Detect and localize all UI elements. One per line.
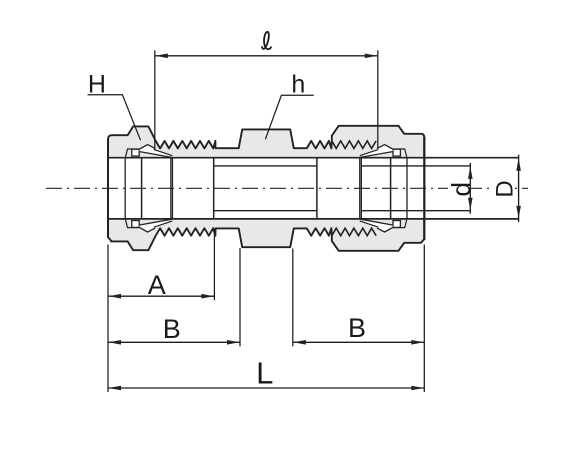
body socket shoulder: [213, 158, 215, 219]
svg-text:A: A: [148, 270, 166, 300]
bore / tube OD line top: [108, 157, 519, 159]
dimension line A: [108, 295, 214, 297]
dimension line B left: [108, 341, 240, 343]
front ferrule nose left: [170, 158, 172, 219]
extension line socket depth (A): [213, 229, 215, 300]
dimension line d (tube bore): [469, 163, 471, 214]
nut inner wall edge left: [124, 158, 126, 219]
ferrules right bottom (back ferrule + front ferrule): [393, 219, 407, 228]
back ferrule edge left: [141, 158, 143, 219]
ferrules left bottom (back ferrule + front ferrule): [125, 219, 139, 228]
extension line right end of body (l): [377, 50, 379, 148]
tube ID line bottom (right side): [361, 210, 470, 212]
body seat edge right: [359, 158, 361, 219]
svg-text:H: H: [88, 71, 106, 99]
bore cavity (white): [108, 158, 424, 219]
extension line right nut face: [423, 245, 425, 393]
leader line for h: [265, 95, 313, 139]
back ferrule edge right: [390, 158, 392, 219]
dimension line D (tube OD): [518, 155, 520, 222]
extension line left nut face: [107, 245, 109, 393]
thread engagement zigzag inside right nut (top): [332, 141, 376, 149]
text mask behind label d: [448, 180, 471, 197]
label l (script ell, body length): [262, 32, 271, 49]
nut inner wall edge right: [406, 158, 408, 219]
ferrules right top (back ferrule + front ferrule): [393, 149, 407, 158]
body through-bore line top: [214, 165, 317, 167]
dimension line B right: [293, 341, 425, 343]
svg-text:L: L: [256, 356, 273, 391]
fitting silhouette: left nut, exposed threads, center body hex, right nut: [108, 126, 424, 251]
svg-text:d: d: [446, 182, 476, 196]
svg-text:B: B: [348, 313, 366, 343]
dimension line l (body length): [155, 55, 378, 57]
tube ID line top (right side): [361, 165, 470, 167]
extension line left end of body (l): [154, 50, 156, 150]
extension line body hex left (B): [239, 248, 241, 346]
bore / tube OD line bottom: [108, 218, 519, 220]
extension line body hex right (B): [292, 249, 294, 347]
dimension line L overall length: [108, 387, 424, 389]
svg-text:D: D: [492, 180, 519, 197]
leader line for H: [88, 95, 141, 141]
left nut face line: [107, 139, 109, 238]
centerline (dash-dot axis): [46, 187, 528, 189]
body seat edge left: [172, 158, 174, 219]
svg-text:B: B: [163, 314, 181, 344]
text mask behind label D: [493, 180, 514, 197]
thread engagement zigzag inside right nut (bottom): [332, 228, 376, 236]
tube end face: [316, 158, 318, 219]
right nut face line: [423, 137, 425, 240]
front ferrule nose right: [360, 158, 362, 219]
body through-bore line bottom: [214, 210, 317, 212]
ferrules left top (back ferrule + front ferrule): [125, 149, 139, 158]
svg-text:h: h: [291, 71, 305, 99]
